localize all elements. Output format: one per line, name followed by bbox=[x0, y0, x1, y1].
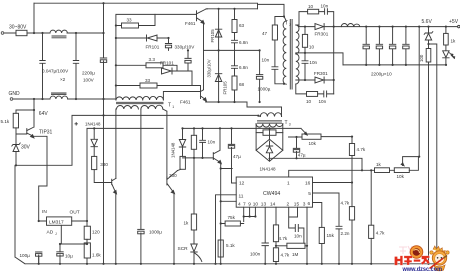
svg-text:15k: 15k bbox=[327, 233, 335, 238]
svg-text:2: 2 bbox=[289, 23, 291, 27]
svg-text:1M: 1M bbox=[292, 252, 299, 257]
svg-text:1: 1 bbox=[172, 105, 174, 109]
svg-text:10k: 10k bbox=[309, 141, 317, 146]
svg-text:68: 68 bbox=[239, 82, 245, 87]
svg-text:100: 100 bbox=[419, 54, 424, 62]
svg-text:4.7k: 4.7k bbox=[357, 147, 366, 152]
svg-text:4.7k: 4.7k bbox=[341, 201, 350, 206]
svg-text:4.7k: 4.7k bbox=[281, 253, 290, 258]
svg-text:TIP31: TIP31 bbox=[39, 129, 53, 135]
svg-text:5.1k: 5.1k bbox=[1, 119, 10, 124]
svg-text:47µ: 47µ bbox=[233, 154, 241, 159]
svg-text:OUT: OUT bbox=[70, 210, 80, 216]
svg-text:1k: 1k bbox=[184, 220, 190, 225]
svg-text:33: 33 bbox=[127, 17, 133, 22]
svg-text:2.2n: 2.2n bbox=[341, 231, 350, 236]
svg-text:1k: 1k bbox=[376, 162, 382, 167]
svg-text:1: 1 bbox=[287, 180, 290, 186]
svg-text:1N4148: 1N4148 bbox=[171, 142, 176, 158]
svg-text:10n: 10n bbox=[294, 233, 302, 238]
svg-text:47µ: 47µ bbox=[298, 153, 306, 158]
svg-text:14: 14 bbox=[270, 201, 276, 207]
svg-text:16: 16 bbox=[305, 180, 311, 186]
svg-text:330: 330 bbox=[169, 173, 177, 178]
svg-text:47: 47 bbox=[262, 31, 268, 36]
svg-text:10µ: 10µ bbox=[65, 254, 73, 259]
svg-text:1000µ: 1000µ bbox=[149, 229, 162, 234]
svg-text:FR105: FR105 bbox=[222, 81, 227, 95]
svg-text:×2: ×2 bbox=[60, 77, 66, 82]
svg-text:3: 3 bbox=[303, 201, 306, 207]
svg-text:6: 6 bbox=[308, 201, 311, 207]
svg-text:FR101: FR101 bbox=[160, 60, 174, 65]
svg-text:10n: 10n bbox=[309, 60, 317, 65]
svg-text:10n: 10n bbox=[321, 4, 329, 9]
svg-text:75k: 75k bbox=[228, 215, 236, 220]
svg-text:1N4148: 1N4148 bbox=[260, 167, 277, 172]
svg-text:10: 10 bbox=[253, 201, 259, 207]
svg-text:+5V: +5V bbox=[449, 19, 459, 25]
svg-text:www.dzsc.com: www.dzsc.com bbox=[402, 266, 443, 272]
svg-text:2: 2 bbox=[287, 201, 290, 207]
svg-text:4.7k: 4.7k bbox=[376, 230, 385, 235]
svg-text:30V: 30V bbox=[21, 145, 31, 151]
svg-text:F461: F461 bbox=[185, 21, 196, 26]
svg-text:FR101: FR101 bbox=[146, 44, 160, 49]
svg-text:4.7k: 4.7k bbox=[279, 236, 288, 241]
svg-text:10n: 10n bbox=[319, 99, 327, 104]
svg-text:T: T bbox=[168, 102, 171, 108]
svg-text:5.6V: 5.6V bbox=[422, 19, 433, 25]
svg-text:IN: IN bbox=[42, 209, 47, 215]
svg-text:CW494: CW494 bbox=[263, 191, 280, 197]
svg-text:0.047µ/100V: 0.047µ/100V bbox=[42, 69, 69, 74]
svg-text:GND: GND bbox=[9, 91, 21, 97]
svg-text:SCR: SCR bbox=[178, 246, 189, 252]
svg-text:330: 330 bbox=[100, 162, 108, 167]
svg-text:1N4148: 1N4148 bbox=[85, 122, 101, 127]
svg-text:6.8n: 6.8n bbox=[239, 65, 248, 70]
svg-text:64V: 64V bbox=[39, 111, 49, 117]
svg-text:10: 10 bbox=[308, 4, 314, 9]
svg-text:6.8n: 6.8n bbox=[239, 40, 248, 45]
svg-text:FR301: FR301 bbox=[314, 71, 328, 76]
svg-text:12: 12 bbox=[239, 180, 245, 186]
svg-text:100µ: 100µ bbox=[20, 253, 31, 258]
svg-text:3.3: 3.3 bbox=[149, 57, 156, 62]
svg-text:5.1k: 5.1k bbox=[226, 243, 235, 248]
svg-text:7: 7 bbox=[243, 201, 246, 207]
svg-text:5: 5 bbox=[308, 191, 311, 197]
svg-text:4: 4 bbox=[238, 201, 241, 207]
svg-text:LM317: LM317 bbox=[49, 220, 64, 226]
svg-text:1.6k: 1.6k bbox=[92, 253, 101, 258]
svg-text:120: 120 bbox=[92, 230, 100, 235]
svg-text:T: T bbox=[285, 21, 288, 27]
svg-text:330µ/10V: 330µ/10V bbox=[175, 44, 196, 49]
svg-text:9: 9 bbox=[248, 201, 251, 207]
svg-text:330µ/10V: 330µ/10V bbox=[207, 59, 212, 77]
svg-text:2200µ: 2200µ bbox=[82, 71, 95, 76]
svg-text:10n: 10n bbox=[208, 139, 216, 144]
svg-text:AD: AD bbox=[47, 230, 54, 236]
svg-text:FR301: FR301 bbox=[315, 32, 329, 37]
svg-text:1000µ: 1000µ bbox=[258, 87, 271, 92]
svg-text:100n: 100n bbox=[250, 252, 261, 257]
svg-text:11: 11 bbox=[239, 193, 244, 199]
svg-text:15: 15 bbox=[294, 201, 300, 207]
svg-text:F461: F461 bbox=[180, 99, 191, 104]
svg-text:FR105: FR105 bbox=[210, 29, 215, 43]
svg-text:63: 63 bbox=[239, 23, 245, 28]
svg-text:10: 10 bbox=[306, 99, 312, 104]
svg-text:T: T bbox=[285, 120, 288, 126]
svg-text:1k: 1k bbox=[451, 39, 457, 44]
svg-text:J: J bbox=[55, 232, 57, 236]
svg-text:33: 33 bbox=[145, 78, 151, 83]
svg-text:10n: 10n bbox=[262, 57, 270, 62]
svg-text:13: 13 bbox=[261, 201, 267, 207]
svg-text:10k: 10k bbox=[397, 174, 405, 179]
svg-text:30~80V: 30~80V bbox=[9, 25, 27, 31]
svg-text:100V: 100V bbox=[83, 78, 95, 83]
svg-text:3: 3 bbox=[289, 123, 291, 127]
svg-text:10: 10 bbox=[309, 45, 315, 50]
svg-text:2200µ×10: 2200µ×10 bbox=[371, 71, 392, 76]
